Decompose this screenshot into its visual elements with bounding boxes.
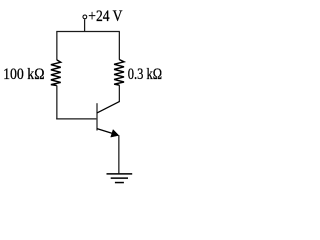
svg-text:0.3 kΩ: 0.3 kΩ [128,66,162,83]
transistor Q1 emitter lead with arrow [97,129,114,134]
wire top rail [56,31,120,33]
wire left lower [56,86,58,120]
supply terminal circle [83,15,87,19]
wire left upper [56,32,58,61]
resistor R1 100 kOhm zigzag [51,60,61,86]
wire base [56,118,96,120]
wire supply tap [84,19,86,31]
wire emitter down [118,135,120,173]
ground bar 2 [111,177,128,179]
resistor R2 0.3 kOhm zigzag [114,60,124,86]
wire collector feed [118,85,120,102]
wire right upper [118,32,120,60]
svg-text:100 kΩ: 100 kΩ [3,66,44,83]
ground bar 1 [107,173,133,175]
transistor Q1 base bar [96,103,98,130]
ground bar 3 [115,182,124,184]
svg-text:+24 V: +24 V [88,8,123,25]
transistor Q1 collector lead [97,101,120,113]
transistor Q1 emitter arrowhead [111,130,119,138]
